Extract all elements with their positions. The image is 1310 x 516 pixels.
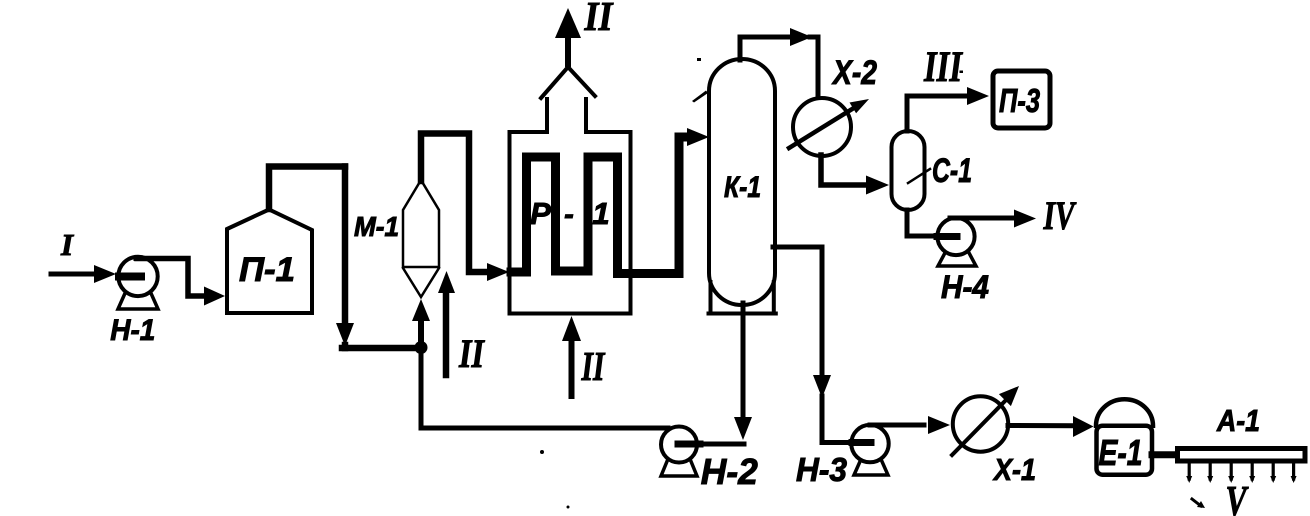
wire exchanger Х-1 outlet to vessel Е-1 — [1008, 423, 1074, 428]
svg-text:IV: IV — [1043, 193, 1077, 238]
svg-text:А-1: А-1 — [1216, 403, 1260, 438]
svg-text:Н-4: Н-4 — [941, 269, 989, 305]
svg-text:II: II — [581, 343, 606, 389]
scan speck — [567, 506, 570, 509]
scan speck right of III — [960, 71, 964, 74]
wire column К-1 overhead to exchanger Х-2 — [740, 37, 788, 60]
box П-3 — [993, 71, 1050, 128]
separator С-1 tick — [908, 169, 930, 183]
wire furnace П-1 overhead to drop — [269, 167, 345, 210]
wire stream II vent arrow up — [565, 36, 571, 64]
svg-text:II: II — [584, 0, 615, 39]
wire stream II arrow into reactor bottom — [569, 340, 575, 396]
wire pump Н-4 discharge stream IV — [950, 216, 1012, 221]
wire junction up into mixer М-1 bottom — [418, 316, 424, 342]
svg-text:Х-2: Х-2 — [831, 54, 877, 92]
wire mixer М-1 overhead to reactor Р-1 inlet — [421, 134, 490, 273]
column К-1 skirt — [709, 282, 776, 314]
exchanger Х-1 — [953, 396, 1008, 451]
pump Н-2 base — [661, 459, 697, 476]
pump H-1 base — [118, 291, 158, 309]
wire pump H-1 discharge to furnace П-1 — [137, 259, 205, 297]
pump Н-3 base — [854, 457, 888, 475]
svg-text:-: - — [564, 199, 574, 231]
wire column К-1 bottoms down arrow — [741, 303, 746, 420]
header А-1 spray prongs — [1189, 462, 1293, 479]
svg-text:Х-1: Х-1 — [992, 452, 1036, 487]
svg-text:Р: Р — [530, 196, 551, 231]
pump Н-2 — [661, 427, 697, 463]
wire exchanger Х-2 outlet to separator С-1 — [821, 155, 865, 185]
reactor Р-1 roof — [541, 67, 595, 98]
reactor Р-1 coil and outlet riser to column К-1 — [511, 137, 690, 274]
wire vessel Е-1 outlet to header А-1 — [1152, 451, 1179, 458]
column К-1 — [709, 59, 775, 305]
furnace П-1 — [227, 210, 312, 314]
wire pump Н-3 discharge to exchanger Х-1 — [870, 423, 924, 428]
svg-text:V: V — [1226, 479, 1249, 516]
svg-text:III: III — [923, 44, 963, 91]
wire junction down to recycle line to pump Н-2 — [421, 353, 668, 428]
vessel Е-1 body — [1097, 426, 1153, 475]
pump Н-3 — [851, 425, 888, 462]
scan tick near К-1 top — [697, 58, 701, 61]
header А-1 — [1178, 449, 1306, 462]
exchanger Х-2 — [793, 98, 851, 156]
pump Н-4 — [937, 218, 974, 255]
pump H-1 — [118, 257, 157, 296]
svg-text:Н-3: Н-3 — [796, 451, 847, 488]
scan speck — [540, 450, 544, 454]
svg-text:I: I — [60, 227, 74, 262]
wire column К-1 side draw to pump Н-3 — [773, 247, 822, 374]
svg-text:П-1: П-1 — [239, 251, 295, 289]
svg-text:Н-2: Н-2 — [701, 451, 758, 492]
wire separator С-1 bottoms to pump Н-4 — [907, 210, 940, 236]
reactor Р-1 chimney — [545, 99, 549, 131]
node junction dot — [415, 341, 428, 354]
wire stream I into pump H-1 — [51, 272, 98, 277]
vessel Е-1 dome — [1096, 399, 1153, 426]
svg-text:1: 1 — [592, 196, 609, 231]
scan dash near К-1 top — [692, 91, 708, 103]
wire separator С-1 overhead to box П-3 — [907, 96, 965, 131]
separator С-1 — [892, 131, 925, 210]
svg-text:II: II — [458, 331, 485, 376]
wire drop with arrow to mixer feed junction — [342, 167, 349, 326]
svg-text:Е-1: Е-1 — [1099, 432, 1143, 473]
wire stream II arrow into mixer М-1 — [443, 292, 450, 375]
svg-text:С-1: С-1 — [932, 152, 972, 190]
svg-text:П-3: П-3 — [999, 82, 1040, 119]
wire pump H-1 top discharge start — [136, 256, 160, 261]
wire pump H-1 inlet stub — [119, 273, 141, 281]
pump Н-4 base — [938, 251, 976, 266]
svg-text:М-1: М-1 — [354, 211, 399, 242]
reactor Р-1 — [510, 132, 631, 314]
svg-text:К-1: К-1 — [724, 171, 761, 204]
scan tick near V — [1192, 499, 1201, 506]
mixer М-1 — [403, 180, 439, 297]
wire pump Н-2 discharge — [678, 441, 700, 448]
svg-text:Н-1: Н-1 — [110, 314, 155, 347]
